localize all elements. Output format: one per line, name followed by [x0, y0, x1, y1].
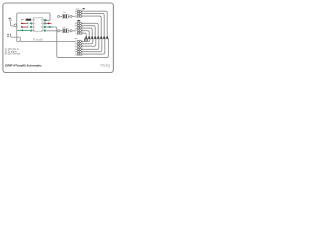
wire fan J3 row1 [81, 31, 89, 39]
wire green pin4 [17, 29, 30, 31]
resistor R1 [58, 12, 76, 18]
label dark net label pin1 [26, 19, 32, 21]
wire fan J3 row2 [81, 33, 86, 38]
wire top-left net: pin1 riser and top run to IC right side [17, 13, 50, 24]
wire green pin7 going right and down to bottom bus [46, 26, 53, 28]
wire fan J1 row3 [81, 16, 101, 38]
wire fan J5 row2 up [81, 39, 101, 52]
wire fan J2 row1 [81, 23, 98, 38]
wire red pin6 dangling [46, 22, 51, 24]
wire fan J5 row1 up [81, 39, 98, 50]
wire fan J4 row2 up [81, 39, 92, 44]
frame border [3, 3, 114, 73]
wire IC pin5 to riser [45, 19, 50, 21]
wire left vertical down to bottom bus [16, 24, 18, 42]
wire switch to bendpoint [11, 22, 15, 26]
node bendpoint circle [14, 24, 17, 27]
header J5 [75, 48, 83, 56]
wire cap to node [11, 33, 21, 41]
wire pin8 to resistor R2 [46, 30, 58, 32]
wire long bottom net from left to header J4 [17, 41, 76, 43]
wire fan J4 row3 up [81, 39, 95, 46]
wire fan J2 row2 [81, 26, 95, 39]
wire fan J1 row1 [81, 11, 107, 38]
header J3 [76, 29, 82, 34]
header J1 [75, 8, 85, 18]
switch S1 [9, 18, 13, 22]
wire red pin3 [21, 26, 26, 28]
svg-text:DRIP ATtiny85 Schematic: DRIP ATtiny85 Schematic [5, 63, 42, 67]
node junction pin5 [45, 19, 47, 21]
resistor R2 [58, 27, 76, 33]
wire fan J1 row2 [81, 14, 104, 39]
wire red pin2 [21, 22, 26, 24]
IC pin stubs [32, 20, 44, 31]
wire fan J5 row3 up [81, 39, 104, 54]
node green pins right side [44, 19, 46, 21]
svg-text:3) Soil Sensor: 3) Soil Sensor [5, 53, 21, 56]
wire fan J2 row3 [81, 28, 92, 38]
capacitor C1 [7, 33, 9, 36]
wire bus bar [84, 38, 109, 40]
IC pin number marks [34, 19, 42, 31]
svg-text:ATtiny85: ATtiny85 [33, 38, 44, 42]
svg-text:fritzing: fritzing [100, 63, 110, 67]
wire fan J4 row1 up [81, 39, 89, 42]
node bus pads [85, 37, 108, 39]
header J4 [74, 39, 82, 48]
header J2 [75, 20, 83, 30]
wire red stub pin1 [21, 18, 23, 21]
label bus left [84, 39, 86, 40]
IC U1 ATtiny85 body [33, 18, 43, 31]
